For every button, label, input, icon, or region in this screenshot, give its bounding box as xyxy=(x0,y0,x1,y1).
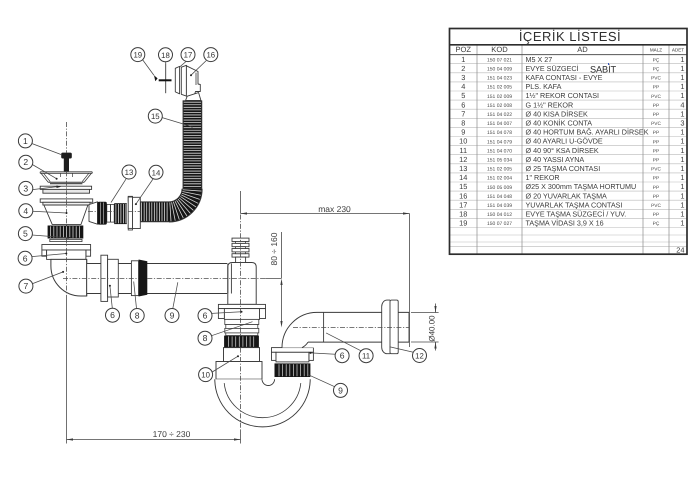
svg-text:17: 17 xyxy=(184,51,193,60)
svg-text:1: 1 xyxy=(680,191,684,200)
svg-text:PP: PP xyxy=(653,130,659,136)
svg-text:5: 5 xyxy=(461,91,465,100)
svg-text:Ø 40 KISA DİRSEK: Ø 40 KISA DİRSEK xyxy=(526,109,589,118)
svg-text:Ø 25 TAŞMA CONTASI: Ø 25 TAŞMA CONTASI xyxy=(526,164,601,173)
svg-text:18: 18 xyxy=(161,51,170,60)
svg-text:15: 15 xyxy=(459,182,467,191)
svg-text:Ø 40 AYARLI U-GÖVDE: Ø 40 AYARLI U-GÖVDE xyxy=(526,137,603,146)
svg-text:POZ: POZ xyxy=(455,45,471,54)
svg-text:17: 17 xyxy=(459,200,467,209)
svg-text:1: 1 xyxy=(680,182,684,191)
svg-text:150 04 009: 150 04 009 xyxy=(487,66,512,72)
svg-text:6: 6 xyxy=(340,351,345,361)
svg-text:PVC: PVC xyxy=(651,94,661,100)
svg-text:6: 6 xyxy=(110,310,115,320)
svg-text:16: 16 xyxy=(206,51,215,60)
svg-text:6: 6 xyxy=(23,253,28,263)
svg-text:1: 1 xyxy=(680,64,684,73)
svg-text:150 07 021: 150 07 021 xyxy=(487,57,512,63)
svg-text:14: 14 xyxy=(459,173,467,182)
svg-text:SABİT: SABİT xyxy=(590,65,617,75)
svg-text:AD: AD xyxy=(577,45,588,54)
svg-text:KOD: KOD xyxy=(491,45,508,54)
svg-text:2: 2 xyxy=(23,157,28,167)
svg-text:1: 1 xyxy=(680,73,684,82)
svg-text:1: 1 xyxy=(680,82,684,91)
svg-text:6: 6 xyxy=(203,311,208,321)
svg-text:PP: PP xyxy=(653,85,659,91)
svg-text:1: 1 xyxy=(680,219,684,228)
svg-text:151 04 048: 151 04 048 xyxy=(487,194,512,200)
svg-text:1: 1 xyxy=(680,146,684,155)
svg-text:19: 19 xyxy=(459,219,467,228)
svg-text:150 05 009: 150 05 009 xyxy=(487,185,512,191)
svg-text:19: 19 xyxy=(133,51,142,60)
svg-text:151 05 034: 151 05 034 xyxy=(487,157,512,163)
svg-text:ADET: ADET xyxy=(672,48,684,53)
svg-text:14: 14 xyxy=(152,168,161,177)
svg-text:1: 1 xyxy=(680,109,684,118)
svg-text:PP: PP xyxy=(653,112,659,118)
svg-text:151 02 004: 151 02 004 xyxy=(487,176,512,182)
svg-text:3: 3 xyxy=(680,118,684,127)
svg-text:11: 11 xyxy=(362,352,370,361)
svg-text:170 ÷ 230: 170 ÷ 230 xyxy=(153,429,191,439)
svg-text:M5 X 27: M5 X 27 xyxy=(526,55,553,64)
svg-text:1: 1 xyxy=(680,173,684,182)
svg-text:PP: PP xyxy=(653,148,659,154)
svg-text:151 04 007: 151 04 007 xyxy=(487,121,512,127)
svg-text:PÇ: PÇ xyxy=(653,57,660,63)
svg-text:12: 12 xyxy=(415,352,424,361)
svg-text:1: 1 xyxy=(680,137,684,146)
svg-text:7: 7 xyxy=(24,281,29,291)
svg-text:151 04 023: 151 04 023 xyxy=(487,76,512,82)
svg-text:80 ÷ 160: 80 ÷ 160 xyxy=(269,232,279,265)
svg-text:1: 1 xyxy=(680,55,684,64)
svg-text:PLS. KAFA: PLS. KAFA xyxy=(526,82,562,91)
svg-text:151 04 070: 151 04 070 xyxy=(487,148,512,154)
svg-text:MALZ: MALZ xyxy=(650,48,662,53)
svg-text:12: 12 xyxy=(459,155,467,164)
svg-text:9: 9 xyxy=(338,385,343,395)
svg-text:150 07 027: 150 07 027 xyxy=(487,221,512,227)
svg-text:PP: PP xyxy=(653,139,659,145)
svg-text:151 02 005: 151 02 005 xyxy=(487,167,512,173)
svg-text:1: 1 xyxy=(23,136,28,146)
svg-text:1: 1 xyxy=(680,91,684,100)
svg-text:EVYE SÜZGECİ: EVYE SÜZGECİ xyxy=(526,64,579,73)
svg-text:Ø 20 YUVARLAK TAŞMA: Ø 20 YUVARLAK TAŞMA xyxy=(526,191,608,200)
svg-text:15: 15 xyxy=(151,112,160,121)
svg-text:PP: PP xyxy=(653,157,659,163)
svg-text:16: 16 xyxy=(459,191,467,200)
svg-text:1: 1 xyxy=(680,128,684,137)
svg-text:151 02 008: 151 02 008 xyxy=(487,103,512,109)
svg-text:4: 4 xyxy=(680,100,684,109)
svg-text:151 04 022: 151 04 022 xyxy=(487,112,512,118)
svg-text:13: 13 xyxy=(459,164,467,173)
svg-text:1: 1 xyxy=(680,200,684,209)
svg-text:151 02 005: 151 02 005 xyxy=(487,85,512,91)
svg-text:1: 1 xyxy=(680,155,684,164)
svg-text:9: 9 xyxy=(170,311,175,321)
svg-text:G 1½" REKOR: G 1½" REKOR xyxy=(526,100,574,109)
svg-text:max 230: max 230 xyxy=(318,204,351,214)
svg-text:151 02 009: 151 02 009 xyxy=(487,94,512,100)
svg-text:150 04 012: 150 04 012 xyxy=(487,212,512,218)
svg-text:İÇERİK LİSTESİ: İÇERİK LİSTESİ xyxy=(519,29,621,44)
svg-text:1: 1 xyxy=(461,55,465,64)
svg-text:EVYE TAŞMA SÜZGECİ / YUV.: EVYE TAŞMA SÜZGECİ / YUV. xyxy=(526,209,627,218)
svg-text:1: 1 xyxy=(680,164,684,173)
svg-text:1" REKOR: 1" REKOR xyxy=(526,173,560,182)
svg-text:10: 10 xyxy=(459,137,467,146)
svg-text:4: 4 xyxy=(461,82,465,91)
svg-text:2: 2 xyxy=(461,64,465,73)
svg-text:10: 10 xyxy=(201,371,210,380)
svg-text:1: 1 xyxy=(680,209,684,218)
svg-text:PÇ: PÇ xyxy=(653,221,660,227)
svg-text:9: 9 xyxy=(461,128,465,137)
svg-text:PÇ: PÇ xyxy=(653,66,660,72)
svg-text:151 04 079: 151 04 079 xyxy=(487,139,512,145)
svg-text:TAŞMA VİDASI 3,9 X 16: TAŞMA VİDASI 3,9 X 16 xyxy=(526,219,604,228)
svg-text:3: 3 xyxy=(23,183,28,193)
svg-text:PP: PP xyxy=(653,176,659,182)
svg-text:Ø25 X 300mm TAŞMA HORTUMU: Ø25 X 300mm TAŞMA HORTUMU xyxy=(526,182,637,191)
svg-text:PVC: PVC xyxy=(651,167,661,173)
svg-text:1½" REKOR CONTASI: 1½" REKOR CONTASI xyxy=(526,91,600,100)
svg-text:3: 3 xyxy=(461,73,465,82)
svg-text:5: 5 xyxy=(23,229,28,239)
svg-text:8: 8 xyxy=(461,118,465,127)
svg-text:8: 8 xyxy=(135,311,140,321)
svg-text:4: 4 xyxy=(23,206,28,216)
svg-text:24: 24 xyxy=(676,246,684,255)
svg-text:151 04 078: 151 04 078 xyxy=(487,130,512,136)
svg-text:Ø 40 YASSI AYNA: Ø 40 YASSI AYNA xyxy=(526,155,585,164)
svg-text:PVC: PVC xyxy=(651,121,661,127)
svg-text:PVC: PVC xyxy=(651,76,661,82)
svg-text:6: 6 xyxy=(461,100,465,109)
svg-text:151 04 039: 151 04 039 xyxy=(487,203,512,209)
svg-text:Ø 40 HORTUM BAĞ. AYARLI DİRSEK: Ø 40 HORTUM BAĞ. AYARLI DİRSEK xyxy=(526,128,649,137)
svg-text:YUVARLAK TAŞMA CONTASI: YUVARLAK TAŞMA CONTASI xyxy=(526,200,623,209)
svg-text:Ø 40 90° KSA DİRSEK: Ø 40 90° KSA DİRSEK xyxy=(526,146,599,155)
svg-text:PVC: PVC xyxy=(651,203,661,209)
svg-text:PP: PP xyxy=(653,103,659,109)
svg-text:PP: PP xyxy=(653,185,659,191)
svg-text:PP: PP xyxy=(653,212,659,218)
svg-text:PP: PP xyxy=(653,194,659,200)
svg-text:8: 8 xyxy=(203,333,208,343)
svg-text:7: 7 xyxy=(461,109,465,118)
svg-text:Ø40.00: Ø40.00 xyxy=(428,315,437,342)
svg-text:Ø 40 KONİK CONTA: Ø 40 KONİK CONTA xyxy=(526,118,593,127)
svg-text:13: 13 xyxy=(125,168,134,177)
svg-text:11: 11 xyxy=(459,146,467,155)
svg-text:18: 18 xyxy=(459,209,467,218)
